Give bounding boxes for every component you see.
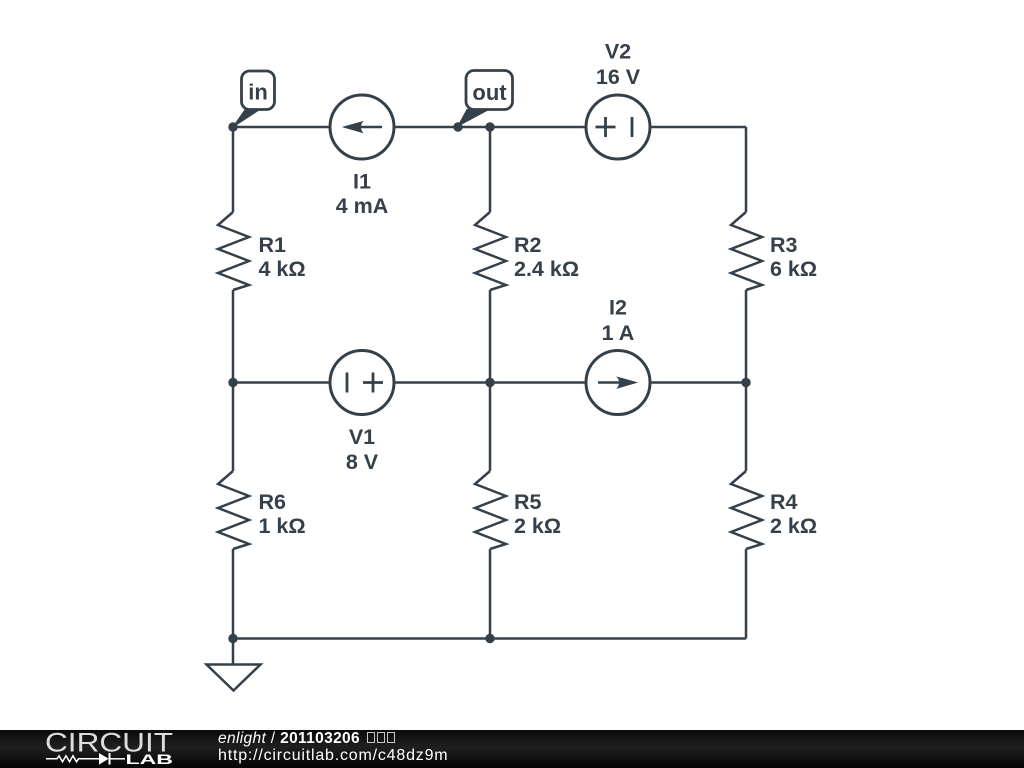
wire middle rail: left node to V1 <box>233 381 332 384</box>
wire middle rail: V1 to I2 <box>392 381 588 384</box>
svg-text:V2: V2 <box>605 40 631 64</box>
svg-text:in: in <box>248 80 268 105</box>
wire middle column (middle to R5) <box>489 383 492 472</box>
svg-text:2 kΩ: 2 kΩ <box>770 514 817 538</box>
svg-text:16 V: 16 V <box>596 65 641 89</box>
node in callout <box>233 71 275 127</box>
svg-text:2.4 kΩ: 2.4 kΩ <box>514 257 579 281</box>
wire top rail: I1 to V2 <box>392 126 588 129</box>
svg-text:I2: I2 <box>609 296 627 320</box>
svg-text:R1: R1 <box>259 233 287 257</box>
svg-text:6 kΩ: 6 kΩ <box>770 257 817 281</box>
wire right column (middle to R4) <box>745 383 748 472</box>
node dot middle right <box>741 378 750 387</box>
ground symbol <box>207 639 261 691</box>
svg-text:LAB: LAB <box>126 751 174 767</box>
wire middle column (R5 to bottom) <box>489 549 492 639</box>
wire left column upper (in node to R1) <box>232 127 235 212</box>
wire right column (R3 to middle) <box>745 290 748 383</box>
resistor R6 symbol <box>218 471 249 549</box>
wire right column upper (corner to R3) <box>745 127 748 212</box>
wire left column (R6 to bottom) <box>232 549 235 639</box>
node dot bottom left <box>228 634 237 643</box>
wire middle rail: I2 to right rail <box>648 381 746 384</box>
resistor R2 symbol <box>475 212 506 290</box>
node out callout <box>458 71 513 127</box>
svg-text:I1: I1 <box>353 170 371 194</box>
wire top rail: V2 to top-right corner <box>648 126 746 129</box>
resistor R5 symbol <box>475 471 506 549</box>
wire bottom rail <box>233 637 746 640</box>
svg-text:R3: R3 <box>770 233 798 257</box>
node dot out <box>453 122 462 131</box>
svg-text:R2: R2 <box>514 233 542 257</box>
wire right column (R4 to bottom) <box>745 549 748 639</box>
svg-text:4 kΩ: 4 kΩ <box>259 257 306 281</box>
wire middle column (R2 to middle) <box>489 290 492 383</box>
current source I1 symbol <box>330 95 394 159</box>
svg-text:2 kΩ: 2 kΩ <box>514 514 561 538</box>
voltage source V2 symbol <box>586 95 650 159</box>
wire left column (R1 to middle) <box>232 290 235 383</box>
svg-text:R6: R6 <box>259 490 287 514</box>
resistor R3 symbol <box>731 212 762 290</box>
wire left column (middle to R6) <box>232 383 235 472</box>
voltage source V1 symbol <box>330 351 394 415</box>
svg-text:1 kΩ: 1 kΩ <box>259 514 306 538</box>
node dot in <box>228 122 237 131</box>
wire top rail: in node to I1 <box>233 126 332 129</box>
svg-text:V1: V1 <box>349 425 375 449</box>
svg-text:R4: R4 <box>770 490 798 514</box>
node dot bottom center <box>485 634 494 643</box>
node dot top middle junction <box>485 122 494 131</box>
current source I2 symbol <box>586 351 650 415</box>
resistor R1 symbol <box>218 212 249 290</box>
node dot middle center <box>485 378 494 387</box>
wire middle column upper (out junction to R2) <box>489 127 492 212</box>
svg-text:out: out <box>472 80 507 105</box>
resistor R4 symbol <box>731 471 762 549</box>
node dot middle left <box>228 378 237 387</box>
svg-text:8 V: 8 V <box>346 450 379 474</box>
svg-text:R5: R5 <box>514 490 542 514</box>
svg-text:1 A: 1 A <box>602 321 635 345</box>
svg-text:4 mA: 4 mA <box>336 194 389 218</box>
footer bar <box>0 730 1024 768</box>
